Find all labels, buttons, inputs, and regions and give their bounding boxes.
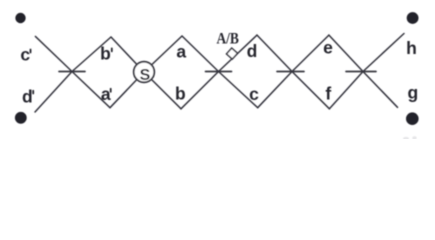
svg-text:a: a [176,41,186,61]
svg-text:c: c [20,44,30,64]
svg-text:A/B: A/B [216,31,239,48]
svg-text:b: b [100,44,111,64]
svg-text:c: c [249,84,259,104]
svg-text:h: h [406,38,417,58]
svg-text:b: b [175,84,186,104]
svg-text:d: d [22,86,33,106]
svg-text:S: S [140,67,151,84]
svg-text:g: g [407,82,418,102]
svg-text:a: a [101,84,111,104]
svg-text:f: f [325,83,331,103]
svg-text:e: e [323,38,333,58]
svg-text:d: d [247,41,258,61]
